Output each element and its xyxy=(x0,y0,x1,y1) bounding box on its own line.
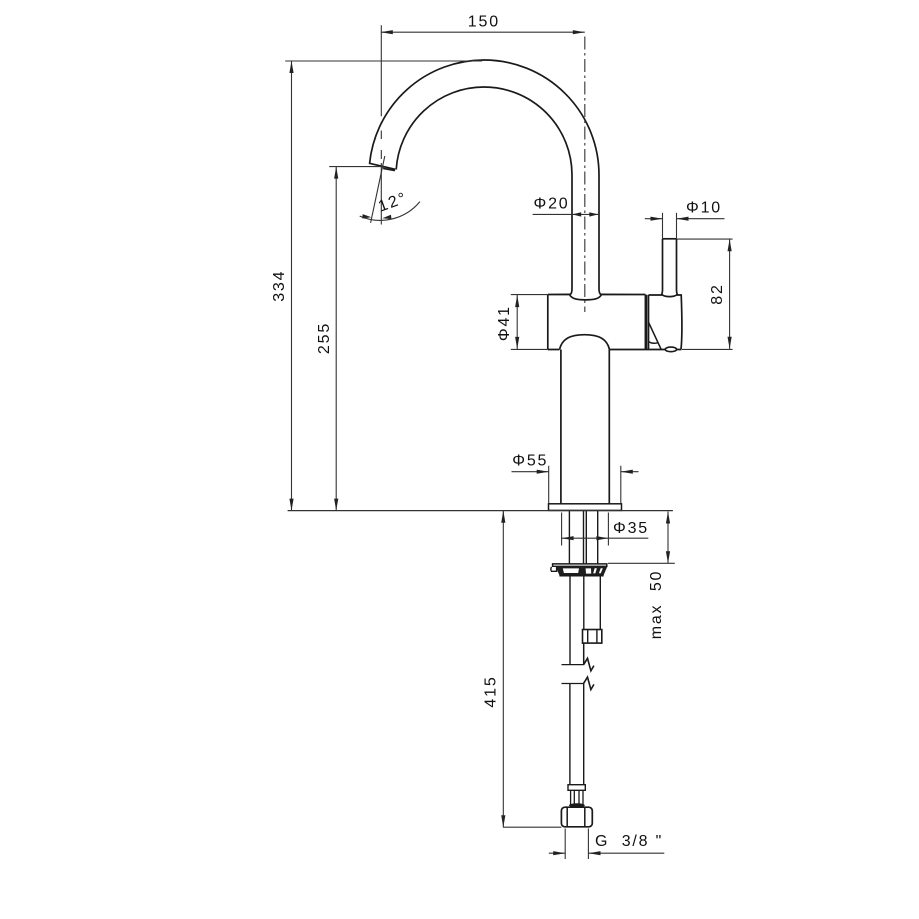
handle rod right xyxy=(677,239,678,295)
dimension 150 xyxy=(381,25,585,116)
12 degree slant line xyxy=(371,156,385,223)
dimension 334 xyxy=(285,61,482,511)
dimension phi10 xyxy=(645,213,725,239)
svg-text:82: 82 xyxy=(709,283,726,304)
svg-text:255: 255 xyxy=(316,322,333,354)
svg-text:G 3/8 ": G 3/8 " xyxy=(595,833,663,850)
svg-text:415: 415 xyxy=(482,675,499,707)
break symbol lower xyxy=(562,683,584,685)
spout end face xyxy=(369,163,395,169)
threaded stud line xyxy=(569,576,571,665)
hose below collar xyxy=(583,643,585,665)
svg-text:Φ41: Φ41 xyxy=(496,305,513,341)
under-counter shank lines xyxy=(569,511,597,565)
dimension max 50 xyxy=(608,512,675,564)
hose lower section xyxy=(570,684,584,785)
pipe left wall xyxy=(570,175,572,294)
spout outer arc xyxy=(370,60,599,175)
lever slant line xyxy=(648,322,661,349)
12 degree angle arc xyxy=(360,202,420,221)
body-handle divider xyxy=(645,295,647,350)
dimension phi35 xyxy=(562,513,649,546)
countertop line xyxy=(288,510,673,512)
svg-text:Φ20: Φ20 xyxy=(534,196,570,213)
12 degree reference vertical xyxy=(380,131,382,225)
base plate xyxy=(549,504,622,511)
neck dark band xyxy=(569,803,585,807)
svg-text:Φ10: Φ10 xyxy=(686,200,722,217)
column right xyxy=(608,350,610,504)
pipe right wall xyxy=(599,175,601,294)
body outline xyxy=(548,294,646,349)
dimension 415 xyxy=(503,511,561,827)
svg-text:Φ35: Φ35 xyxy=(613,520,649,537)
dimension phi20 xyxy=(533,213,599,215)
hose end neck xyxy=(571,790,583,805)
handle rod left xyxy=(661,239,662,295)
mounting nut xyxy=(551,564,608,576)
hose end collar xyxy=(568,785,585,791)
svg-text:334: 334 xyxy=(271,270,288,302)
lever under-curve xyxy=(648,341,658,343)
spout inner arc xyxy=(396,87,572,175)
hose collar nut xyxy=(583,630,602,644)
handle rod top cap xyxy=(663,238,677,240)
dimension 82 xyxy=(677,239,733,349)
dimension phi55 xyxy=(512,466,639,504)
handle base block xyxy=(649,295,682,349)
svg-text:Φ55: Φ55 xyxy=(512,452,548,469)
body-column transition arch xyxy=(560,335,610,350)
dimension phi41 xyxy=(511,295,548,350)
dimension 255 xyxy=(329,167,382,511)
dimension G 3/8 xyxy=(549,829,665,860)
body bottom line xyxy=(548,349,682,351)
svg-text:150: 150 xyxy=(468,14,500,31)
break symbol upper xyxy=(562,664,584,666)
lever ball xyxy=(665,347,676,352)
aerator band xyxy=(383,168,395,172)
svg-text:max 50: max 50 xyxy=(648,570,665,640)
centerline xyxy=(584,37,586,313)
hose upper section xyxy=(584,576,601,630)
column left xyxy=(560,350,562,504)
G3/8 hex nut xyxy=(561,807,592,827)
